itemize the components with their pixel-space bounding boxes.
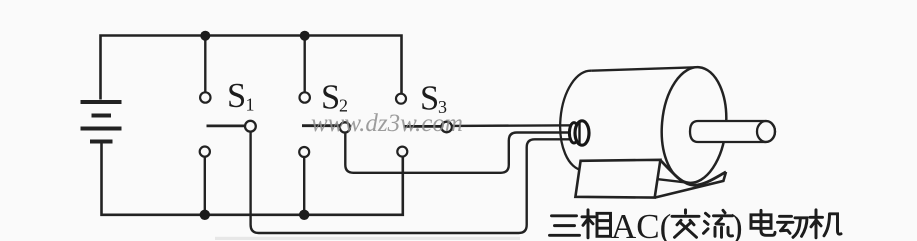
svg-text:S: S — [227, 77, 246, 115]
svg-text:AC(: AC( — [611, 207, 671, 241]
svg-text:1: 1 — [246, 95, 255, 115]
svg-text:www.dz3w.com: www.dz3w.com — [311, 110, 463, 137]
